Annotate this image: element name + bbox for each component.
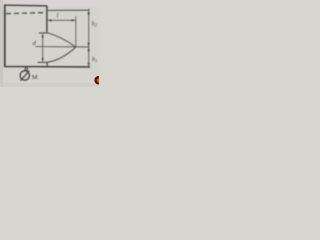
h1 bottom arrow — [88, 63, 90, 67]
dimension d down arrow — [42, 58, 44, 62]
h1 top arrow — [88, 47, 90, 51]
gauge M body circle — [20, 71, 29, 80]
h2 bottom arrow — [88, 43, 90, 47]
red bullet dot at right edge — [94, 76, 103, 85]
dimension d up arrow — [42, 34, 44, 38]
nozzle cone upper side — [47, 33, 75, 47]
dimension l left arrow — [48, 19, 52, 21]
cone base bottom tick — [38, 61, 48, 63]
svg-text:h2: h2 — [92, 22, 98, 28]
h dimension vertical line — [88, 9, 90, 67]
h2 reference line — [47, 9, 89, 11]
cone base top tick — [39, 32, 48, 34]
svg-text:h1: h1 — [92, 57, 97, 63]
paper background — [0, 0, 99, 87]
svg-text:M: M — [32, 74, 38, 81]
tank right wall upper segment — [46, 6, 48, 33]
dimension d line — [42, 34, 44, 62]
tank top wall — [4, 4, 47, 7]
tank right wall lower stub — [46, 62, 48, 66]
l extension line — [75, 16, 77, 47]
dimension l line — [48, 19, 75, 21]
nozzle cone lower side — [47, 47, 75, 62]
water level (dashed) — [6, 13, 46, 14]
h2 top arrow — [88, 11, 90, 15]
gauge slash — [21, 71, 30, 81]
nozzle axis line — [36, 46, 89, 48]
dimension l right arrow — [72, 19, 76, 21]
ground / tank bottom line — [4, 66, 90, 68]
tank left wall — [4, 5, 6, 67]
gauge connector circle — [25, 68, 28, 71]
